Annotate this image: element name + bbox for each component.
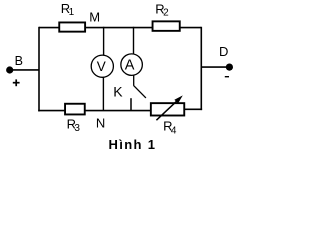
wire V branch lower bbox=[102, 77, 104, 111]
resistor R1 bbox=[59, 22, 85, 31]
svg-text:1: 1 bbox=[69, 7, 75, 18]
svg-text:3: 3 bbox=[74, 123, 80, 134]
wire R4 to right rail bbox=[185, 108, 202, 110]
wire V branch upper bbox=[103, 27, 105, 56]
switch K blade bbox=[133, 85, 146, 98]
resistor R2 bbox=[153, 21, 180, 31]
svg-text:N: N bbox=[96, 115, 105, 130]
plus sign bbox=[13, 82, 20, 84]
svg-text:V: V bbox=[97, 59, 106, 74]
terminal D dot bbox=[226, 64, 233, 71]
wire A branch upper bbox=[133, 27, 135, 55]
svg-text:M: M bbox=[89, 9, 100, 24]
wire right rail bbox=[200, 27, 202, 110]
switch K post bbox=[130, 98, 132, 110]
voltmeter V bbox=[91, 55, 113, 77]
wire bottom rail bbox=[38, 110, 150, 112]
resistor R3 bbox=[65, 104, 85, 115]
terminal B dot bbox=[6, 66, 13, 73]
svg-text:B: B bbox=[15, 54, 23, 68]
R4 arrow bbox=[156, 101, 176, 120]
wire top rail bbox=[39, 27, 201, 29]
switch K lead from ammeter bbox=[133, 75, 135, 85]
svg-text:D: D bbox=[219, 44, 228, 59]
svg-text:4: 4 bbox=[171, 125, 177, 136]
svg-text:Hình 1: Hình 1 bbox=[109, 137, 157, 152]
ammeter A bbox=[121, 54, 143, 76]
wire D terminal lead bbox=[201, 66, 227, 68]
svg-text:A: A bbox=[125, 57, 135, 73]
resistor R4 (variable) bbox=[151, 103, 184, 115]
svg-text:K: K bbox=[113, 84, 123, 100]
wire left rail bbox=[38, 27, 40, 112]
wire B terminal lead bbox=[10, 69, 39, 71]
svg-text:2: 2 bbox=[163, 7, 169, 18]
minus sign bbox=[225, 76, 229, 78]
